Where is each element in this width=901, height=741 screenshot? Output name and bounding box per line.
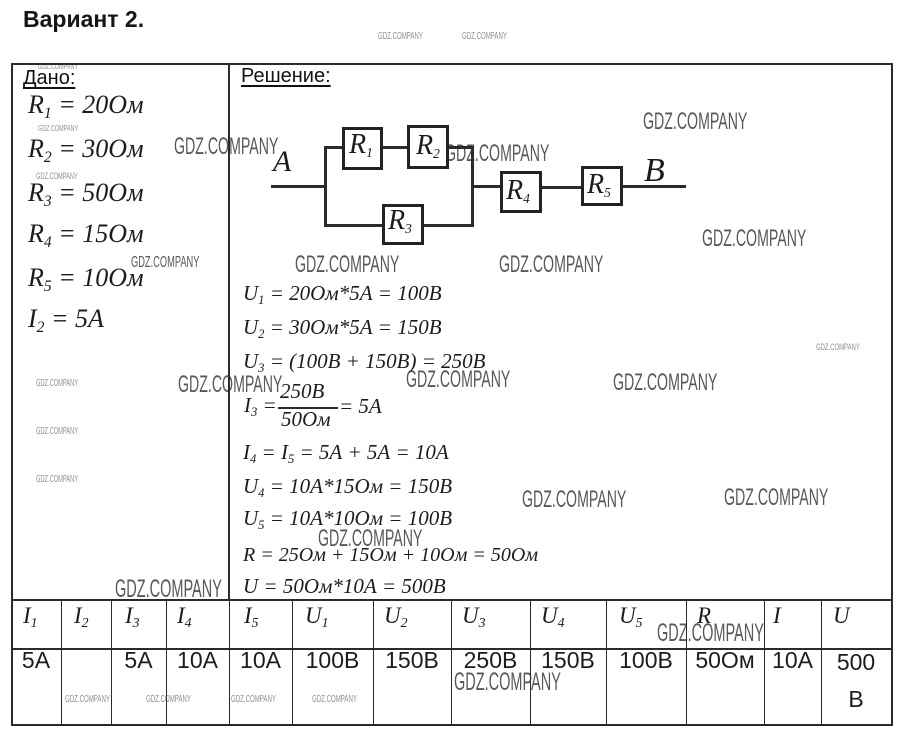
wire junction-R4	[474, 185, 500, 188]
wire R2-junction	[449, 146, 471, 149]
watermarks	[378, 32, 423, 42]
results table top	[11, 599, 891, 601]
Решение header	[241, 66, 331, 86]
resistor R4	[500, 171, 542, 213]
value cells	[11, 649, 61, 672]
resistor R3	[382, 204, 424, 245]
results header divider	[11, 648, 891, 650]
resistor R2	[407, 125, 449, 169]
resistor R5	[581, 166, 623, 206]
wire right junction vertical	[471, 146, 474, 227]
remaining equations	[243, 442, 449, 463]
header cells	[23, 604, 38, 627]
Дано header	[23, 68, 75, 88]
wire left junction vertical	[324, 146, 327, 227]
title	[23, 6, 144, 33]
wire bottom branch left	[327, 224, 382, 227]
column lines	[61, 599, 62, 724]
fraction I3	[244, 395, 277, 416]
wire A-junction	[271, 185, 327, 188]
wire R5-B	[623, 185, 686, 188]
node A	[273, 147, 291, 177]
wire R3-junction	[424, 224, 471, 227]
wire R1-R2	[383, 146, 407, 149]
wire top branch left	[327, 146, 343, 149]
resistor R1	[342, 127, 383, 170]
divider Дано/Решение	[228, 63, 230, 599]
Дано items	[28, 92, 144, 118]
wire R4-R5	[542, 186, 581, 189]
node B	[644, 154, 665, 188]
